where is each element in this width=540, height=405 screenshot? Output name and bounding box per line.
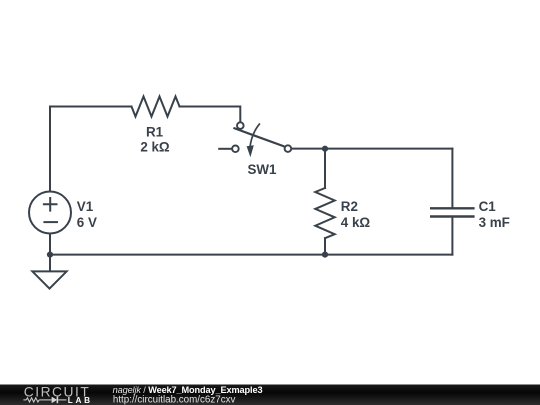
capacitor C1 plates (430, 208, 475, 216)
svg-text:V1: V1 (77, 199, 94, 214)
resistor R2 (315, 188, 334, 238)
svg-text:6 V: 6 V (77, 215, 97, 230)
wire R2 bottom lead (324, 238, 326, 254)
switch SW1 blade (233, 128, 284, 147)
switch SW1 actuation arrow arc (250, 123, 260, 147)
switch SW1 left stub wire (218, 148, 232, 150)
V1 plus sign (43, 197, 58, 212)
voltage source V1 (29, 192, 71, 234)
junction node at V1/ground (47, 252, 53, 258)
svg-text:2 kΩ: 2 kΩ (140, 140, 170, 155)
logo diode triangle (52, 397, 58, 404)
svg-text:SW1: SW1 (247, 162, 277, 177)
wire C1 top lead (451, 149, 453, 208)
switch SW1 arrowhead (247, 145, 254, 157)
resistor R1 (132, 97, 180, 117)
logo diode bar (56, 397, 58, 404)
svg-text:http://circuitlab.com/c6z7cxv: http://circuitlab.com/c6z7cxv (113, 395, 236, 405)
junction node at R2 top (322, 146, 328, 152)
wire R1 to SW1 pivot (180, 107, 241, 123)
logo schematic line left lead (23, 399, 26, 401)
V1 minus sign (43, 221, 58, 223)
logo resistor zigzag (26, 398, 39, 402)
wire top-left from V1 corner to R1 (50, 107, 132, 192)
wire SW1 right terminal to C1 branch (291, 148, 452, 150)
switch SW1 pivot terminal (237, 122, 244, 129)
svg-text:C1: C1 (479, 199, 497, 214)
wire bottom rail (50, 254, 452, 256)
ground stub wire (49, 255, 51, 272)
svg-text:4 kΩ: 4 kΩ (341, 215, 371, 230)
footer bar (0, 385, 540, 405)
wire V1 bottom to ground node (49, 234, 51, 255)
svg-text:LAB: LAB (68, 396, 93, 405)
svg-text:R2: R2 (341, 199, 358, 214)
svg-text:3 mF: 3 mF (479, 215, 510, 230)
switch SW1 left terminal (232, 146, 239, 153)
logo wire to diode (39, 399, 51, 401)
wire C1 bottom lead (451, 218, 453, 255)
logo wire after diode (58, 399, 66, 401)
junction node at R2 bottom (322, 252, 328, 258)
svg-text:nageljk / Week7_Monday_Exmaple: nageljk / Week7_Monday_Exmaple3 (113, 385, 263, 395)
wire R2 top lead (324, 149, 326, 188)
ground symbol (32, 271, 66, 288)
svg-text:R1: R1 (146, 125, 164, 140)
switch SW1 right terminal (285, 145, 292, 152)
